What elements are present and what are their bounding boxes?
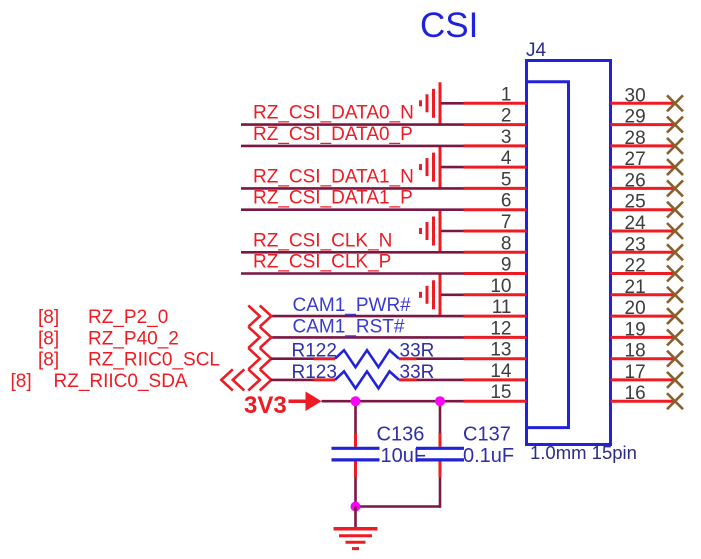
svg-text:17: 17 xyxy=(625,362,646,383)
C136 reference label xyxy=(377,424,425,446)
svg-text:C137: C137 xyxy=(463,424,511,446)
R122 value 33R xyxy=(400,341,435,362)
pin number 10 xyxy=(490,276,511,297)
R123 value 33R xyxy=(400,362,435,383)
no-connect X pin 19 xyxy=(667,329,683,345)
wire ground to pin 1 xyxy=(441,102,464,105)
junction node 3V3/C136 xyxy=(351,396,361,406)
ground (shield) symbol pin 10 xyxy=(421,274,441,316)
svg-text:20: 20 xyxy=(625,298,646,319)
pin number 24 xyxy=(625,213,647,234)
svg-text:8: 8 xyxy=(501,233,512,254)
svg-text:15: 15 xyxy=(490,382,511,403)
wire 3V3 rail xyxy=(322,400,464,403)
pin number 22 xyxy=(625,256,646,277)
pin 2 stub xyxy=(464,123,527,126)
no-connect X pin 25 xyxy=(667,202,683,218)
svg-text:27: 27 xyxy=(625,149,646,170)
svg-text:CAM1_PWR#: CAM1_PWR# xyxy=(293,295,412,316)
svg-text:13: 13 xyxy=(490,340,511,361)
wire R122 left xyxy=(271,357,314,360)
capacitor C137 plates xyxy=(416,448,464,460)
connector J4 inner slot xyxy=(527,82,569,428)
C136 top pin stub xyxy=(354,433,357,447)
svg-text:R123: R123 xyxy=(292,362,337,383)
pin 5 stub xyxy=(464,187,527,190)
pin 16 wire xyxy=(611,400,676,403)
pin 22 wire xyxy=(611,272,676,275)
wire net RZ_CSI_DATA0_N xyxy=(241,123,464,126)
pin 9 stub xyxy=(464,272,527,275)
connector J4 reference label xyxy=(526,40,547,61)
no-connect X pin 22 xyxy=(667,266,683,282)
pin 8 stub xyxy=(464,251,527,254)
pin number 9 xyxy=(501,255,512,276)
svg-text:CSI: CSI xyxy=(420,6,478,45)
R122 left pin stub xyxy=(314,357,336,360)
no-connect X pin 29 xyxy=(667,117,683,133)
pin 24 wire xyxy=(611,230,676,233)
pin number 2 xyxy=(501,106,512,127)
3V3 arrow head xyxy=(306,391,322,411)
svg-text:26: 26 xyxy=(625,170,646,191)
svg-text:5: 5 xyxy=(501,169,512,190)
pin number 5 xyxy=(501,169,512,190)
no-connect X pin 27 xyxy=(667,159,683,175)
net label RZ_CSI_DATA1_N xyxy=(253,166,414,187)
svg-text:30: 30 xyxy=(625,85,646,106)
wire C137 top xyxy=(439,401,442,433)
pin number 28 xyxy=(625,128,646,149)
pin 20 wire xyxy=(611,315,676,318)
svg-text:4: 4 xyxy=(501,148,512,169)
no-connect X pin 17 xyxy=(667,372,683,388)
port label RZ_P2_0 xyxy=(88,307,168,328)
port label RZ_RIIC0_SCL xyxy=(88,350,220,371)
3V3 arrow tail xyxy=(289,399,307,403)
svg-text:RZ_RIIC0_SDA: RZ_RIIC0_SDA xyxy=(54,371,188,392)
pin 27 wire xyxy=(611,166,676,169)
pin 19 wire xyxy=(611,336,676,339)
svg-text:23: 23 xyxy=(625,234,646,255)
svg-text:18: 18 xyxy=(625,341,646,362)
pin number 1 xyxy=(501,84,512,105)
off-page connector chevrons row pin 11 xyxy=(248,306,271,327)
pin 7 stub xyxy=(464,230,527,233)
R123 right pin stub xyxy=(399,378,417,381)
svg-text:3V3: 3V3 xyxy=(244,392,287,419)
pin 13 stub xyxy=(464,357,527,360)
ground symbol xyxy=(334,529,378,549)
net label CAM1_RST# xyxy=(293,316,405,337)
net label RZ_CSI_CLK_P xyxy=(253,252,391,273)
pin number 25 xyxy=(625,192,646,213)
svg-text:14: 14 xyxy=(490,361,512,382)
svg-text:[8]: [8] xyxy=(38,350,59,371)
C137 bottom pin stub xyxy=(439,461,442,478)
svg-text:0.1uF: 0.1uF xyxy=(463,445,514,467)
pin number 3 xyxy=(501,127,512,148)
pin number 27 xyxy=(625,149,646,170)
title CSI xyxy=(420,6,478,45)
pin number 21 xyxy=(625,277,646,298)
ground (shield) symbol pin 1 xyxy=(421,82,441,124)
ground (shield) symbol pin 7 xyxy=(421,210,441,252)
pin 26 wire xyxy=(611,187,676,190)
net label RZ_CSI_CLK_N xyxy=(253,230,392,251)
wire to ground xyxy=(354,507,357,528)
pin number 4 xyxy=(501,148,512,169)
pin 29 wire xyxy=(611,123,676,126)
C136 bottom pin stub xyxy=(354,461,357,478)
R123 reference label xyxy=(292,362,337,383)
R123 left pin stub xyxy=(314,378,336,381)
pin 21 wire xyxy=(611,293,676,296)
sheet reference [8] for RZ_RIIC0_SCL xyxy=(38,350,59,371)
no-connect X pin 21 xyxy=(667,287,683,303)
sheet reference [8] for RZ_P2_0 xyxy=(38,307,59,328)
svg-text:21: 21 xyxy=(625,277,646,298)
pin number 11 xyxy=(492,297,512,318)
wire net RZ_CSI_DATA0_P xyxy=(241,145,464,148)
no-connect X pin 20 xyxy=(667,308,683,324)
junction node 3V3/C137 xyxy=(435,396,445,406)
svg-text:24: 24 xyxy=(625,213,647,234)
pin 30 wire xyxy=(611,102,676,105)
svg-text:2: 2 xyxy=(501,106,512,127)
pin 14 stub xyxy=(464,378,527,381)
svg-text:RZ_RIIC0_SCL: RZ_RIIC0_SCL xyxy=(88,350,220,371)
pin 10 stub xyxy=(464,293,527,296)
svg-text:7: 7 xyxy=(501,212,512,233)
svg-text:[8]: [8] xyxy=(11,371,32,392)
svg-text:16: 16 xyxy=(625,383,646,404)
svg-text:33R: 33R xyxy=(400,362,435,383)
pin 25 wire xyxy=(611,208,676,211)
pin number 20 xyxy=(625,298,646,319)
no-connect X pin 24 xyxy=(667,223,683,239)
pin number 15 xyxy=(490,382,511,403)
pin number 6 xyxy=(501,191,512,212)
pin number 17 xyxy=(625,362,646,383)
wire ground bus xyxy=(354,505,440,508)
svg-text:11: 11 xyxy=(492,297,512,318)
svg-text:RZ_CSI_DATA0_N: RZ_CSI_DATA0_N xyxy=(253,103,414,124)
no-connect X pin 26 xyxy=(667,180,683,196)
pin number 8 xyxy=(501,233,512,254)
pin 28 wire xyxy=(611,144,676,147)
pin 12 stub xyxy=(464,336,527,339)
wire R123 left xyxy=(271,379,314,382)
capacitor C136 plates xyxy=(332,448,380,460)
wire ground to pin 10 xyxy=(441,293,464,296)
pin number 14 xyxy=(490,361,512,382)
R122 right pin stub xyxy=(399,357,417,360)
svg-text:33R: 33R xyxy=(400,341,435,362)
pin 3 stub xyxy=(464,144,527,147)
wire ground to pin 4 xyxy=(441,166,464,169)
pin 15 stub xyxy=(464,400,527,403)
resistor R123 body xyxy=(335,371,399,388)
svg-text:10: 10 xyxy=(490,276,511,297)
pin number 19 xyxy=(625,319,646,340)
wire ground to pin 7 xyxy=(441,230,464,233)
R122 reference label xyxy=(292,341,337,362)
wire R122 right xyxy=(417,357,464,360)
svg-text:CAM1_RST#: CAM1_RST# xyxy=(293,316,405,337)
svg-text:9: 9 xyxy=(501,255,512,276)
svg-text:29: 29 xyxy=(625,107,646,128)
off-page connector left chevrons RZ_RIIC0_SDA xyxy=(221,369,244,390)
no-connect X pin 30 xyxy=(667,95,683,111)
sheet reference [8] for RZ_RIIC0_SDA xyxy=(11,371,32,392)
svg-text:19: 19 xyxy=(625,319,646,340)
svg-text:22: 22 xyxy=(625,256,646,277)
no-connect X pin 28 xyxy=(667,138,683,154)
connector note 1.0mm 15pin xyxy=(530,442,637,463)
ground (shield) symbol pin 4 xyxy=(421,146,441,188)
pin number 12 xyxy=(490,318,511,339)
svg-text:6: 6 xyxy=(501,191,512,212)
pin number 26 xyxy=(625,170,646,191)
pin 18 wire xyxy=(611,357,676,360)
wire net CAM1_RST# xyxy=(271,336,464,339)
net label RZ_CSI_DATA1_P xyxy=(253,188,413,209)
pin 6 stub xyxy=(464,208,527,211)
pin number 23 xyxy=(625,234,646,255)
pin 23 wire xyxy=(611,251,676,254)
pin number 7 xyxy=(501,212,512,233)
resistor R122 body xyxy=(335,350,399,367)
no-connect X pin 18 xyxy=(667,351,683,367)
pin 1 stub xyxy=(464,102,527,105)
svg-text:J4: J4 xyxy=(526,40,547,61)
svg-text:1.0mm 15pin: 1.0mm 15pin xyxy=(530,442,637,463)
svg-text:12: 12 xyxy=(490,318,511,339)
net label CAM1_PWR# xyxy=(293,295,412,316)
svg-text:1: 1 xyxy=(501,84,512,105)
C137 value 0.1uF xyxy=(463,445,514,467)
svg-text:RZ_P40_2: RZ_P40_2 xyxy=(88,328,179,349)
svg-text:RZ_CSI_DATA0_P: RZ_CSI_DATA0_P xyxy=(253,124,413,145)
pin number 30 xyxy=(625,85,646,106)
port label RZ_P40_2 xyxy=(88,328,179,349)
svg-text:25: 25 xyxy=(625,192,646,213)
svg-text:R122: R122 xyxy=(292,341,337,362)
no-connect X pin 16 xyxy=(667,393,683,409)
net label RZ_CSI_DATA0_N xyxy=(253,103,414,124)
wire C136 bottom xyxy=(354,478,357,507)
svg-text:RZ_CSI_DATA1_N: RZ_CSI_DATA1_N xyxy=(253,166,414,187)
pin number 29 xyxy=(625,107,646,128)
wire net CAM1_PWR# xyxy=(271,315,464,318)
svg-text:RZ_CSI_CLK_N: RZ_CSI_CLK_N xyxy=(253,230,392,251)
pin 17 wire xyxy=(611,378,676,381)
svg-text:RZ_P2_0: RZ_P2_0 xyxy=(88,307,168,328)
wire R123 right xyxy=(417,379,464,382)
off-page connector chevrons row pin 13 xyxy=(248,348,271,369)
power label 3V3 xyxy=(244,392,287,419)
svg-text:C136: C136 xyxy=(377,424,425,446)
wire net RZ_CSI_DATA1_N xyxy=(241,187,464,190)
connector J4 outer body xyxy=(527,61,611,445)
pin 11 stub xyxy=(464,315,527,318)
wire net RZ_CSI_CLK_P xyxy=(241,272,464,275)
off-page connector chevrons row pin 14 xyxy=(248,369,271,390)
pin number 16 xyxy=(625,383,646,404)
off-page connector chevrons row pin 12 xyxy=(248,327,271,348)
pin number 18 xyxy=(625,341,646,362)
wire C137 bottom xyxy=(439,478,442,508)
net label RZ_CSI_DATA0_P xyxy=(253,124,413,145)
sheet reference [8] for RZ_P40_2 xyxy=(38,328,59,349)
svg-text:3: 3 xyxy=(501,127,512,148)
C136 value 10uF xyxy=(381,445,427,467)
pin 4 stub xyxy=(464,166,527,169)
wire net RZ_CSI_CLK_N xyxy=(241,251,464,254)
svg-text:[8]: [8] xyxy=(38,328,59,349)
wire C136 top xyxy=(354,401,357,433)
pin number 13 xyxy=(490,340,511,361)
C137 reference label xyxy=(463,424,511,446)
svg-text:28: 28 xyxy=(625,128,646,149)
port label RZ_RIIC0_SDA xyxy=(54,371,188,392)
no-connect X pin 23 xyxy=(667,244,683,260)
junction node GND xyxy=(351,502,361,512)
svg-text:[8]: [8] xyxy=(38,307,59,328)
svg-text:RZ_CSI_CLK_P: RZ_CSI_CLK_P xyxy=(253,252,391,273)
wire net RZ_CSI_DATA1_P xyxy=(241,208,464,211)
svg-text:RZ_CSI_DATA1_P: RZ_CSI_DATA1_P xyxy=(253,188,413,209)
C137 top pin stub xyxy=(439,433,442,447)
